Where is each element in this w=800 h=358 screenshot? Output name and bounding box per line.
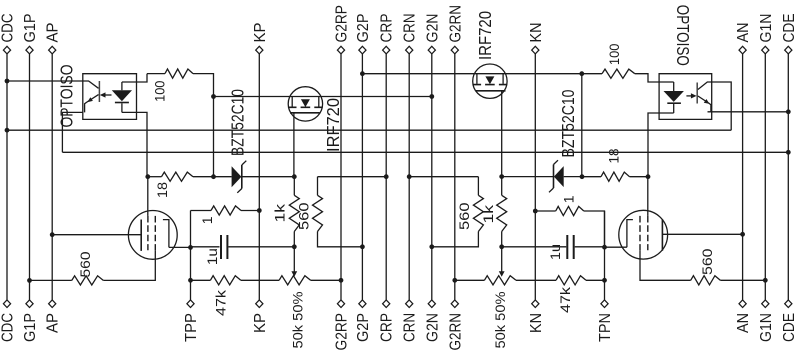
wire TPP corner to R9 <box>191 210 212 212</box>
potentiometer RV2 50k element <box>484 276 516 285</box>
wire net G2RN vertical bus <box>454 54 456 300</box>
junction node 1k-cap left <box>292 244 297 249</box>
wire R4 to LED2 node <box>630 176 649 178</box>
junction node TPP-plate <box>188 245 193 250</box>
svg-text:47k: 47k <box>557 286 573 313</box>
svg-text:1: 1 <box>199 216 215 224</box>
terminal diamond KP bottom <box>256 300 263 308</box>
junction node zener row left <box>211 174 216 179</box>
junction node R2 node <box>579 71 584 76</box>
wire tube V2 plate to TPN <box>605 246 627 248</box>
svg-text:G1P: G1P <box>22 14 39 43</box>
resistor R9 1 <box>211 206 241 215</box>
wire RV1 to G2RP <box>311 279 341 281</box>
wire G2P to Q2 and node <box>362 73 602 75</box>
wire node to R5 1k <box>293 177 295 196</box>
terminal diamond KN top <box>532 46 539 54</box>
wire RV2 wiper from R7 <box>501 247 503 272</box>
wire net G1N vertical bus <box>764 54 766 300</box>
junction node AN-cathode <box>740 232 745 237</box>
wire R2 to LED2 step <box>635 74 674 82</box>
wire R10 to TPN corner <box>584 211 605 247</box>
svg-text:KN: KN <box>528 313 545 333</box>
junction node CDC-rail <box>5 128 10 133</box>
Q1 body arrow <box>301 99 310 107</box>
Q2 gate bar <box>476 90 506 92</box>
wire R12 to G1N <box>720 279 765 281</box>
wire R6 bottom to G2P <box>318 232 363 247</box>
junction node G1P-560 <box>27 278 32 283</box>
capacitor C2 1u plates <box>567 235 573 259</box>
U2 LED cathode wire <box>673 104 675 113</box>
svg-text:G2RP: G2RP <box>334 5 351 43</box>
svg-text:G1N: G1N <box>758 313 775 342</box>
V1 grid g1 pin <box>147 177 149 216</box>
Q1 channel segments <box>289 106 322 108</box>
terminal diamond KN bottom <box>532 300 539 308</box>
U2 LED cathode bar <box>667 102 681 104</box>
junction node G2RP-pot <box>339 278 344 283</box>
svg-text:BZT52C10: BZT52C10 <box>558 89 578 157</box>
V2 cathode bar <box>661 219 663 250</box>
resistor R13 47k <box>210 276 240 285</box>
svg-text:1: 1 <box>561 195 577 203</box>
svg-text:560: 560 <box>296 202 312 230</box>
wire node to zener D1 <box>214 176 232 178</box>
resistor R7 1k <box>497 195 507 231</box>
junction node AP-cathode <box>50 232 55 237</box>
capacitor C1 1u plates <box>221 235 227 259</box>
U1 emitter arrowhead <box>87 97 93 102</box>
Q1 source stub <box>318 97 320 107</box>
svg-text:G2P: G2P <box>355 14 372 43</box>
U1 light arrow shaft <box>105 94 112 96</box>
junction node G2RN-pot <box>452 278 457 283</box>
junction node gate-zener left <box>292 174 297 179</box>
terminal diamond TPN bottom <box>601 300 608 308</box>
U1 light arrowhead <box>100 92 106 97</box>
resistor R11 560 <box>72 276 104 285</box>
Q1 gate wire <box>293 113 295 177</box>
wire C1 to node <box>228 246 294 248</box>
U1 LED anode wire <box>121 82 123 90</box>
wire net KP vertical bus <box>258 54 260 300</box>
terminal diamond CDE top <box>785 46 792 54</box>
wire CDC to optoiso U1 collector <box>7 80 83 82</box>
svg-text:TPN: TPN <box>597 313 614 342</box>
wire node to capacitor C2 <box>502 246 567 248</box>
Q2 body arrow <box>485 76 494 84</box>
svg-text:G2P: G2P <box>355 313 372 342</box>
Q1 drain stub <box>291 97 293 107</box>
wire R8 560 vertical top <box>477 177 479 196</box>
junction node CDE-rail <box>786 150 791 155</box>
zener D2 cathode bar <box>553 165 555 189</box>
wire V2 g2 to R12 <box>640 250 691 280</box>
svg-text:47k: 47k <box>212 289 228 316</box>
junction node TPN-47k <box>602 278 607 283</box>
U2 LED triangle <box>664 91 684 102</box>
junction node zener row right <box>580 174 585 179</box>
svg-text:KN: KN <box>528 23 545 43</box>
svg-text:1u: 1u <box>204 248 220 265</box>
terminal diamond G2P top <box>359 46 366 54</box>
svg-text:CRP: CRP <box>379 14 396 43</box>
wire G2RN to pot RV2 <box>455 279 485 281</box>
terminal diamond CDE bottom <box>785 300 792 308</box>
wire RV2 to R14 <box>516 279 556 281</box>
wire net TPP vertical <box>190 211 192 300</box>
wire G1P to R11 <box>30 279 72 281</box>
svg-text:50k 50%: 50k 50% <box>492 292 508 349</box>
junction node G2P-drain <box>360 71 365 76</box>
svg-text:CDC: CDC <box>0 313 17 342</box>
zener D2 BZT52C10 triangle <box>554 166 564 187</box>
U2 light arrow shaft <box>686 95 691 97</box>
V2 plate <box>627 220 633 248</box>
wire net KN vertical bus <box>534 54 536 300</box>
wire D2 to node <box>564 176 582 178</box>
V2 grid g1 pin <box>647 177 649 216</box>
wire gate node to zener D2 <box>502 176 554 178</box>
terminal diamond CDC top <box>3 46 10 54</box>
U2 emitter arrowhead <box>704 99 710 104</box>
resistor R12 560 <box>691 276 721 285</box>
V2 grid g2 dashed <box>639 216 641 250</box>
terminal diamond CRP bottom <box>383 300 390 308</box>
optoisolator U1 box <box>83 74 137 120</box>
svg-text:KP: KP <box>252 23 269 43</box>
svg-text:AN: AN <box>735 23 752 43</box>
wire net CRP vertical bus <box>385 54 387 300</box>
svg-text:100: 100 <box>151 80 167 101</box>
wire R8 560 top to CRN <box>409 176 478 178</box>
svg-text:18: 18 <box>606 148 622 163</box>
junction node KN-R10 <box>533 209 538 214</box>
junction node CDC-collector <box>5 79 10 84</box>
resistor R5 1k <box>289 195 299 231</box>
wire node to R7 1k <box>501 177 503 196</box>
terminal diamond CDC bottom <box>3 300 10 308</box>
wire RV1 wiper from R5 <box>293 247 295 272</box>
svg-text:CDE: CDE <box>781 313 798 342</box>
U2 light arrowhead <box>691 93 697 98</box>
svg-text:G2RP: G2RP <box>334 313 351 351</box>
terminal diamond G1P top <box>26 46 33 54</box>
svg-text:560: 560 <box>77 251 93 277</box>
wire net G1P vertical bus <box>29 54 31 300</box>
wire R9 to KP <box>241 210 259 212</box>
wire net G2RP vertical bus <box>340 54 342 300</box>
wire net CRN vertical bus <box>408 54 410 300</box>
wire net AP vertical bus <box>51 54 53 300</box>
U2 phototransistor base bar <box>696 83 698 104</box>
wire rail U1 emitter to CDE <box>62 151 788 153</box>
junction node G2P-560 <box>360 244 365 249</box>
wire net CDC vertical bus <box>6 54 8 300</box>
optoisolator U2 box <box>659 74 712 120</box>
transistor Q2 IRF720 body circle <box>473 64 507 98</box>
junction node G1N-560 <box>763 278 768 283</box>
wire KN to R10 <box>535 210 555 212</box>
terminal diamond KP top <box>256 46 263 54</box>
svg-text:IRF720: IRF720 <box>475 11 495 60</box>
svg-text:560: 560 <box>699 248 715 275</box>
svg-text:KP: KP <box>252 313 269 333</box>
svg-text:1k: 1k <box>480 204 496 224</box>
U1 emitter wire <box>85 95 99 113</box>
svg-text:G1N: G1N <box>758 14 775 43</box>
resistor R10 1 <box>556 206 584 215</box>
wire U2 collector riser <box>712 82 732 130</box>
resistor R4 18 <box>601 172 630 181</box>
svg-text:CRN: CRN <box>402 313 419 342</box>
wire net AN vertical bus <box>742 54 744 300</box>
svg-text:1k: 1k <box>272 203 288 223</box>
svg-text:G2N: G2N <box>424 313 441 342</box>
junction node 1k-cap right <box>499 244 504 249</box>
resistor R8 560 <box>473 195 483 231</box>
terminal diamond G1N top <box>762 46 769 54</box>
U1 LED cathode bar <box>115 102 129 104</box>
svg-text:G2N: G2N <box>424 14 441 43</box>
svg-text:AN: AN <box>735 313 752 333</box>
V1 grid g2 dashed <box>154 216 156 250</box>
U2 LED anode wire <box>673 82 675 91</box>
wire node to resistor R3 <box>148 176 162 178</box>
Q2 gate wire <box>501 91 503 177</box>
terminal diamond G2RP top <box>337 46 344 54</box>
terminal diamond CRP top <box>383 46 390 54</box>
resistor R14 47k <box>556 276 586 285</box>
RV2 wiper arrowhead <box>499 271 505 277</box>
svg-text:AP: AP <box>45 23 62 43</box>
svg-text:18: 18 <box>154 182 170 198</box>
wire tube V1 plate to TPP <box>169 246 191 248</box>
wire TPP to capacitor C1 <box>191 246 220 248</box>
wire rail CDC to U2 collector riser <box>7 129 731 131</box>
svg-text:100: 100 <box>606 43 622 65</box>
wire R6 560 top to CRP <box>318 176 387 178</box>
terminal diamond AN top <box>739 46 746 54</box>
wire C2 to TPN <box>575 246 605 248</box>
zener D1 cathode bar <box>241 165 243 189</box>
resistor R1 100 <box>165 69 193 78</box>
zener D2 cathode hooks <box>549 160 558 192</box>
terminal diamond AP bottom <box>49 300 56 308</box>
terminal diamond G2RN top <box>451 46 458 54</box>
zener D1 BZT52C10 triangle <box>232 166 242 187</box>
zener D1 cathode hooks <box>237 161 246 193</box>
resistor R3 18 <box>162 172 194 181</box>
U1 collector wire <box>83 81 99 88</box>
tube V1 envelope circle <box>128 210 177 259</box>
junction node TPP-47k <box>188 278 193 283</box>
Q2 source stub <box>476 74 478 84</box>
junction node LED2 drop <box>646 174 651 179</box>
wire R7 to node <box>501 232 503 247</box>
wire LED2 bottom drop <box>648 113 674 177</box>
terminal diamond AP top <box>49 46 56 54</box>
wire R13 to pot RV1 <box>241 279 279 281</box>
wire to resistor R1 <box>147 73 165 75</box>
tube V2 envelope circle <box>619 210 668 259</box>
wire LED1 bottom drop <box>122 112 147 176</box>
U1 LED cathode wire <box>121 103 123 112</box>
terminal diamond G2N top <box>428 46 435 54</box>
V1 plate <box>163 220 169 248</box>
U2 emitter wire <box>698 96 711 112</box>
wire R14 to TPN <box>586 279 605 281</box>
wire D1 to node 1k <box>243 176 295 178</box>
transistor Q1 IRF720 body circle <box>288 87 322 121</box>
terminal diamond CRN bottom <box>406 300 413 308</box>
wire R8 bottom to G2N <box>432 232 479 247</box>
svg-text:BZT52C10: BZT52C10 <box>227 89 247 156</box>
wire LED1 top step <box>122 74 147 82</box>
terminal diamond AN bottom <box>739 300 746 308</box>
junction node KP-R9 <box>257 208 262 213</box>
junction node CRN-560 <box>407 174 412 179</box>
svg-text:CDE: CDE <box>781 14 798 43</box>
V2 grid g1 dashed <box>647 216 649 250</box>
wire TPP to R13 <box>191 279 211 281</box>
svg-text:CRN: CRN <box>402 14 419 43</box>
svg-text:OPTOISO: OPTOISO <box>56 65 76 128</box>
wire net G2N vertical bus <box>431 54 433 300</box>
terminal diamond G2N bottom <box>428 300 435 308</box>
svg-text:G1P: G1P <box>22 313 39 342</box>
svg-text:TPP: TPP <box>183 313 200 342</box>
resistor R2 100 <box>602 69 635 78</box>
U2 collector wire <box>698 82 712 90</box>
RV1 wiper arrowhead <box>291 271 297 277</box>
junction node gate-zener right <box>499 174 504 179</box>
svg-text:G2RN: G2RN <box>447 5 464 43</box>
svg-text:50k 50%: 50k 50% <box>290 292 306 349</box>
V1 grid g1 dashed <box>147 216 149 250</box>
svg-text:560: 560 <box>456 202 472 230</box>
wire U1 emitter drop <box>62 112 82 152</box>
wire U2 emitter to CDE <box>708 111 789 113</box>
junction node G2N-560 <box>429 244 434 249</box>
terminal diamond G2RN bottom <box>451 300 458 308</box>
svg-text:AP: AP <box>45 313 62 333</box>
junction node CRP-560 <box>384 174 389 179</box>
svg-text:G2RN: G2RN <box>447 313 464 351</box>
Q2 drain stub <box>502 74 504 84</box>
wire R5 to node <box>293 232 295 247</box>
wire net CDE vertical bus <box>787 54 789 300</box>
wire R1 to corner <box>193 74 214 177</box>
junction node TPN-plate <box>602 245 607 250</box>
terminal diamond CRN top <box>406 46 413 54</box>
terminal diamond TPP bottom <box>187 300 194 308</box>
U1 phototransistor base bar <box>98 81 100 102</box>
wire R11 to V1 g2 <box>103 250 155 280</box>
svg-text:CDC: CDC <box>0 14 17 43</box>
wire node drop to zener row right <box>581 74 583 177</box>
wire node to Q1 drain and G2N <box>214 96 432 98</box>
wire net TPN vertical <box>604 211 606 300</box>
wire R6 560 vertical top <box>317 177 319 196</box>
junction node CDE-emitter <box>786 109 791 114</box>
wire net G2P vertical bus <box>361 54 363 300</box>
junction node R1 corner <box>211 94 216 99</box>
terminal diamond G2P bottom <box>359 300 366 308</box>
junction node U1 LED drop <box>145 174 150 179</box>
svg-text:OPTOISO: OPTOISO <box>673 5 693 66</box>
potentiometer RV1 50k element <box>279 276 311 285</box>
svg-text:IRF720: IRF720 <box>323 98 343 152</box>
terminal diamond G2RP bottom <box>337 300 344 308</box>
wire AP to V1 cathode <box>52 234 141 236</box>
wire R3 to node <box>193 176 214 178</box>
V1 cathode bar <box>140 220 142 251</box>
terminal diamond G1P bottom <box>26 300 33 308</box>
terminal diamond G1N bottom <box>762 300 769 308</box>
junction node G2N-source <box>429 94 434 99</box>
wire node to resistor R4 <box>582 176 601 178</box>
svg-text:1u: 1u <box>547 244 563 260</box>
Q2 channel segments <box>473 84 506 86</box>
resistor R6 560 <box>313 195 323 231</box>
wire V2 cathode to AN <box>662 233 742 235</box>
U1 LED triangle <box>112 90 132 101</box>
svg-text:CRP: CRP <box>379 313 396 342</box>
Q1 gate bar <box>290 112 320 114</box>
